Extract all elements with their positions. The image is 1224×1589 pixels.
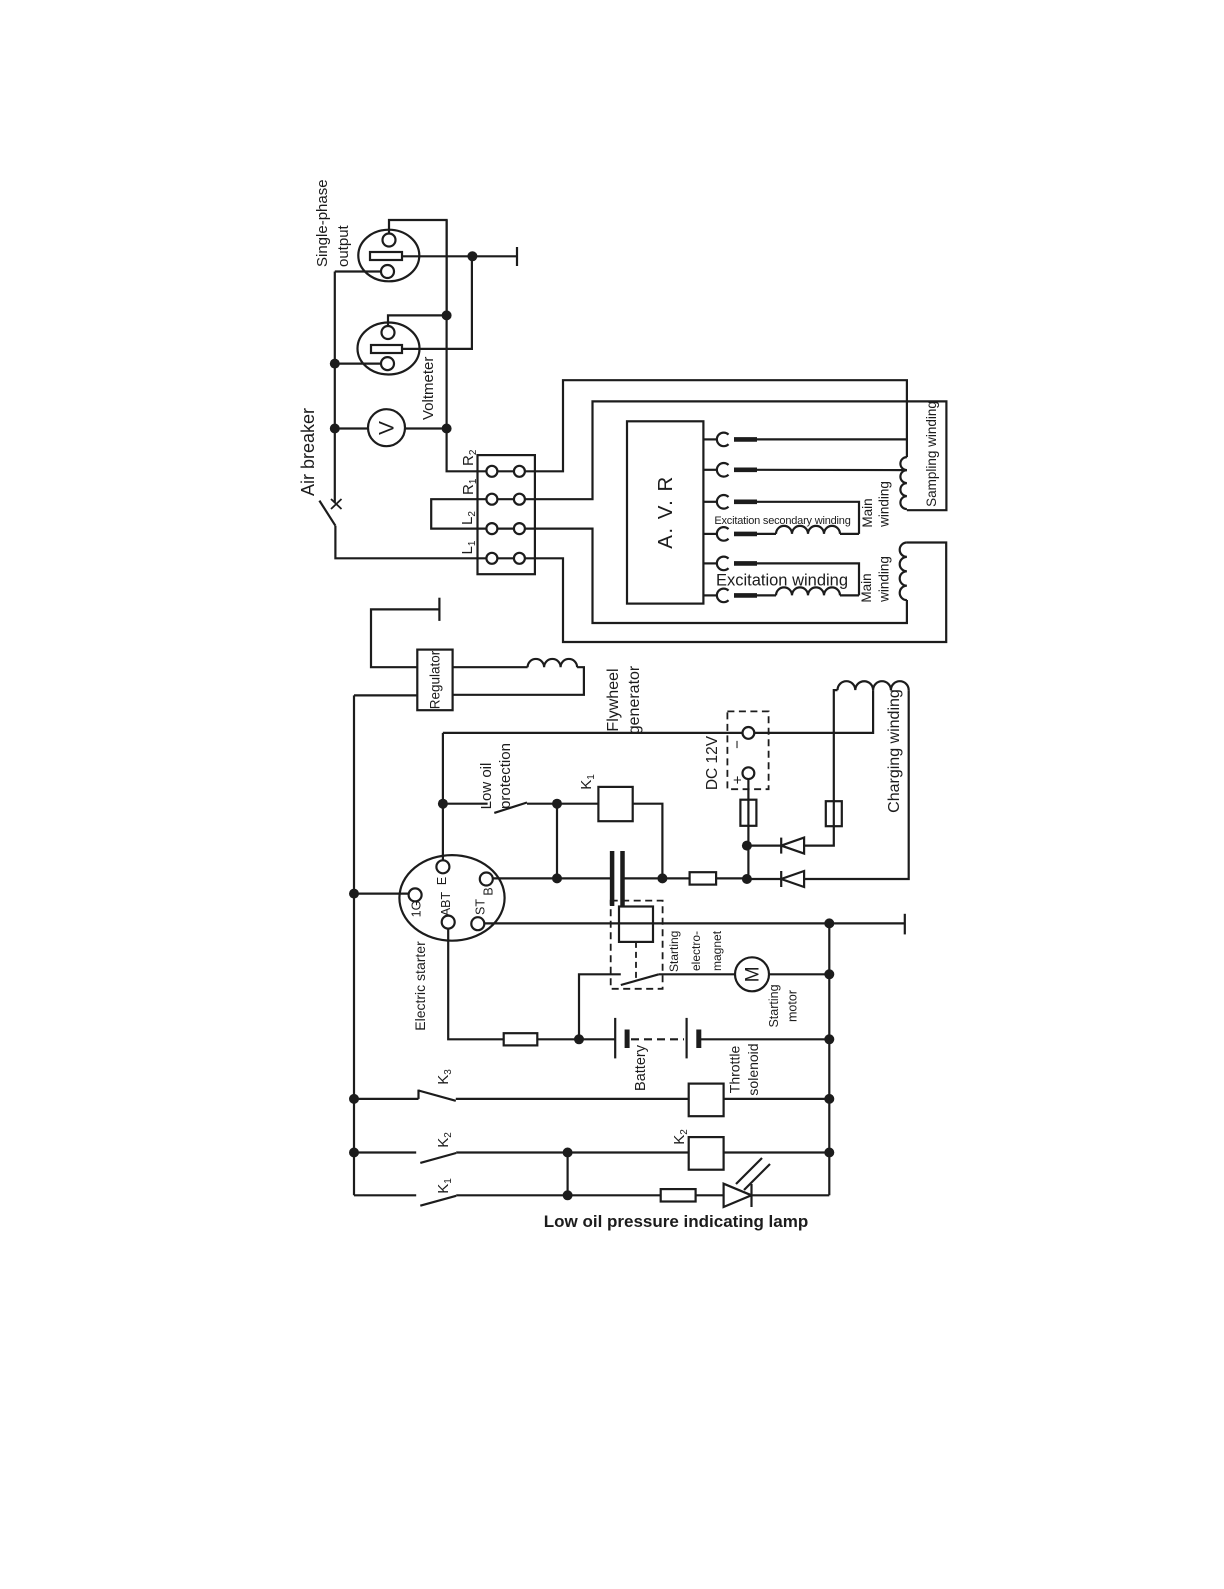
junction capacitor left [552,873,562,883]
sampling winding coil [900,457,906,509]
junction low oil right [552,799,562,809]
fuse charging [826,801,842,826]
wire charging left leg [834,690,838,801]
junction socket2 bottom bus [330,359,340,369]
label Battery [633,1044,649,1091]
K1 relay box [598,787,632,821]
wire low-oil junction down [556,804,558,879]
terminal circles row L2 [478,527,535,529]
svg-text:Starting: Starting [767,984,781,1027]
ground T right [829,922,905,924]
junction K3 right bus [824,1094,834,1104]
right bus [828,923,830,1195]
svg-text:B: B [482,887,496,895]
socket J2 bottom pin [381,357,394,370]
motor switch blade [621,974,659,985]
K2 relay box [689,1137,724,1170]
wire plus to fuse [747,779,749,800]
wire L1 row to main winding top [478,543,947,643]
AVR pin 3 [703,501,717,503]
label Electric starter [412,941,428,1031]
label Excitation winding [716,572,848,590]
starter body [399,855,504,941]
svg-text:Electric starter: Electric starter [412,941,428,1031]
AVR pin 4 [703,533,717,535]
svg-text:R1: R1 [460,478,479,495]
terminal block body [478,455,535,574]
junction diode D1 line [742,841,752,851]
label K2 relay [671,1129,690,1145]
junction K3 left bus [349,1094,359,1104]
motor M [735,957,769,991]
wire J2 slot riser [402,257,472,349]
switch K1 [354,1194,416,1196]
terminal circles row L1 [478,557,535,559]
wire regulator to coil [453,666,528,668]
socket J2 slot [371,345,402,353]
terminal circles row R2 [478,470,535,472]
svg-text:L1: L1 [459,540,478,554]
svg-text:winding: winding [877,481,892,528]
charging winding coil [838,681,909,690]
wire J1 top loop [389,220,447,315]
svg-text:ABT: ABT [439,891,453,916]
terminal minus [743,727,755,739]
regulator box [417,650,452,711]
wire R1 row to AVR loop [478,401,947,510]
wire J2 top loop [388,315,447,326]
wire left bus to regulator [354,694,417,696]
switch K2 [354,1151,416,1153]
svg-text:Low oil: Low oil [478,763,495,810]
svg-text:A. V. R: A. V. R [654,475,677,549]
switch K3 [354,1098,419,1100]
junction battery left [574,1034,584,1044]
svg-text:Main: Main [860,498,875,527]
main line from B [493,877,612,879]
terminal B [480,873,493,886]
AVR pin 2 [703,469,717,471]
wire voltmeter left [335,427,368,429]
svg-text:Sampling winding: Sampling winding [924,401,939,507]
wire J1 slot to ground [402,255,517,257]
label DC 12V [704,735,721,790]
wire pin1 to sampling top [757,438,907,440]
AVR pin 1 [703,438,717,440]
socket J2 body [358,323,420,375]
svg-text:+: + [730,775,747,784]
svg-text:Battery: Battery [633,1044,649,1091]
svg-text:motor: motor [786,990,800,1022]
svg-text:R2: R2 [460,449,479,466]
svg-text:K2: K2 [435,1132,454,1148]
svg-text:Charging winding: Charging winding [886,689,903,813]
junction K1 relay drop [657,873,667,883]
junction 1G bus [349,889,359,899]
junction K2 lamp drop top [563,1148,573,1158]
electromagnet coil box [619,907,653,942]
wire R2 row to AVR loop [478,380,907,471]
wire pin4 to coil [757,533,776,535]
AVR pin 5 [703,562,717,564]
junction K2 right bus [824,1148,834,1158]
svg-text:−: − [729,740,746,749]
wire battery to switch [579,974,621,1039]
wire ST line [484,922,829,924]
junction ST ground line [824,918,834,928]
voltmeter V [368,409,405,446]
ground T top [516,247,518,266]
terminal labels [410,877,496,918]
label starting electromagnet [667,930,724,972]
wire fuse to D1 [804,826,834,845]
label Air breaker [298,408,318,496]
wire charging right leg [804,690,909,879]
fuse main line [690,872,717,884]
svg-text:Voltmeter: Voltmeter [420,357,437,420]
svg-text:winding: winding [877,556,892,603]
wire J2 bottom to left bus [335,363,381,365]
capacitor C1 [610,851,615,906]
terminal 1G [409,888,422,901]
diode D2 [780,871,782,887]
svg-text:K1: K1 [435,1178,454,1194]
junction socket1 ground line [467,251,477,261]
terminal circles row R1 [478,498,535,500]
svg-text:ST: ST [474,899,488,915]
svg-text:Single-phase: Single-phase [314,179,331,267]
junction voltmeter right [442,424,452,434]
socket J1 bottom pin [381,265,394,278]
label Excitation secondary winding [714,515,850,527]
svg-text:output: output [335,224,352,267]
wire L2 row to main winding bottom [478,529,907,623]
label Main winding upper [860,481,892,528]
junction motor right bus [824,969,834,979]
svg-text:K2: K2 [671,1129,690,1145]
svg-text:Starting: Starting [667,931,681,972]
svg-text:V: V [376,421,399,435]
wire voltmeter right [405,427,447,429]
excitation winding coil [776,587,840,595]
label Sampling winding [924,401,939,507]
svg-text:Main: Main [859,573,874,602]
label Charging winding [886,689,903,813]
DC 12V dashed box [727,711,768,789]
label Flywheel generator [605,665,643,734]
label K1 relay [578,774,597,790]
main winding lower coil [900,543,907,601]
junction voltmeter left [330,424,340,434]
wire pin5 loop [757,563,859,595]
svg-text:DC 12V: DC 12V [704,735,721,790]
battery cell 1 [614,1018,616,1059]
wire 1G to left bus [354,892,409,894]
svg-text:electro-: electro- [689,931,703,971]
diode D1 [780,838,782,854]
svg-text:Excitation secondary winding: Excitation secondary winding [714,515,850,527]
vertical K2-K1 [566,1153,568,1196]
top line of lower block [443,732,743,734]
junction diode D2 line [742,874,752,884]
wire ABT to fuse [448,929,504,1040]
wire pin2 to sampling tap [757,469,907,472]
socket J1 body [358,230,419,282]
excitation secondary coil [776,526,840,534]
battery cell 2 [685,1018,687,1059]
label Low oil protection [478,743,514,809]
AVR pin 6 [703,594,717,596]
label Starting motor [767,984,800,1027]
air breaker blade [319,501,335,526]
labels R2 R1 L2 L1 [459,449,479,554]
junction battery right bus [824,1034,834,1044]
left bus top [334,272,336,503]
junction socket2 loop [442,310,452,320]
low oil switch [443,803,488,805]
fuse lamp line [661,1189,696,1201]
svg-text:M: M [743,966,764,982]
svg-text:Low oil pressure indicating la: Low oil pressure indicating lamp [544,1212,809,1231]
socket J2 top pin [382,326,395,339]
svg-text:Excitation winding: Excitation winding [716,572,848,590]
junction K1 lamp line [563,1190,573,1200]
starting electromagnet dashed box [611,901,663,989]
flywheel generator coil [528,659,578,667]
wire coil return [453,667,584,695]
svg-text:1G: 1G [410,901,424,918]
wire pin3 loop [757,502,859,534]
air breaker contact x [331,499,342,509]
caption [544,1212,809,1231]
svg-text:magnet: magnet [710,930,724,971]
bus V to terminal [447,220,478,471]
label Main winding lower [859,556,892,603]
terminal ST [471,917,484,930]
wire K1 to main line [633,804,663,879]
socket J1 top pin [383,234,396,247]
ground T regulator [438,598,440,621]
terminal plus [743,767,755,779]
label Voltmeter [420,357,437,420]
socket J1 slot [370,252,402,260]
junction low oil left [438,799,448,809]
svg-text:K3: K3 [435,1069,454,1085]
svg-text:generator: generator [626,665,643,734]
dashed link [635,942,637,979]
junction K2 left bus [349,1148,359,1158]
label Throttle solenoid [727,1043,762,1095]
label Single-phase output [314,179,352,267]
wire ground loop [371,609,439,667]
battery link dashed [631,1038,684,1040]
wire breaker to L1 row [335,526,477,559]
svg-text:solenoid: solenoid [745,1043,761,1095]
svg-text:Air breaker: Air breaker [298,408,318,496]
wire switch to motor [659,973,735,975]
terminal E [436,860,449,873]
fuse dc12v [740,800,756,826]
svg-text:Flywheel: Flywheel [605,668,622,731]
AVR box [627,421,703,603]
fuse battery line [504,1033,538,1045]
terminal ABT [442,916,455,929]
wire fuse to main line [747,826,749,879]
LED lamp [724,1184,752,1207]
svg-text:Regulator: Regulator [428,650,443,709]
svg-text:E: E [435,877,449,885]
left vertical of lower block [442,733,444,860]
svg-text:Throttle: Throttle [727,1046,743,1094]
wire J1 bottom to left bus [335,270,381,272]
left bus lower [353,695,355,1195]
wire pin6 to coil [757,594,776,596]
throttle solenoid box [689,1084,724,1117]
svg-text:protection: protection [497,743,514,809]
svg-text:L2: L2 [459,511,478,525]
svg-text:K1: K1 [578,774,597,790]
jumper R1-L2 [431,499,477,528]
